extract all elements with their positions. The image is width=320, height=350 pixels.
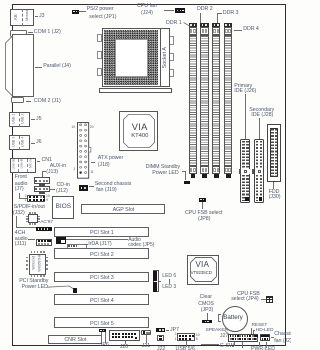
- CPU FSB select JP4: [237, 292, 260, 298]
- VIA VT8235CD chip: [187, 255, 219, 285]
- COM 2 connector J1: [11, 97, 24, 103]
- label J3: [35, 15, 39, 18]
- primary IDE J26: [234, 84, 252, 90]
- audio codec JP5 jumper: [56, 237, 66, 244]
- DDR 2 slot: [200, 23, 209, 27]
- socket pin grid: [104, 30, 158, 86]
- battery: [222, 306, 248, 332]
- clear CMOS JP3: [200, 295, 212, 301]
- secondary IDE J28: [249, 108, 274, 114]
- J20 header: [109, 330, 140, 340]
- BIOS chip: [52, 196, 74, 219]
- CPU fan jumper: [175, 8, 185, 13]
- J27 front panel header: [220, 334, 228, 340]
- DDR labels: [166, 21, 182, 27]
- DDR 1 slot: [189, 23, 198, 27]
- chassis fan J2 connector: [260, 334, 270, 341]
- LED 6 / LED 3: [153, 270, 159, 292]
- parallel port shell: [4, 34, 14, 98]
- COM 1 connector J2: [10, 30, 27, 38]
- CNR Slot: [48, 335, 102, 345]
- DDR 4 slot: [224, 23, 233, 27]
- Front audio J7 label: [15, 175, 27, 181]
- DDR 3 slot: [212, 23, 221, 27]
- parallel port J4: [12, 34, 34, 97]
- PCI Slot 1: [54, 227, 149, 238]
- ATX power connector J18: [71, 120, 96, 182]
- 4CH audio J11 label: [15, 231, 25, 237]
- CD-in label: [57, 183, 70, 189]
- PCI Slot 4: [54, 294, 149, 305]
- line to audio codec label: [66, 238, 128, 241]
- PCI standby power LED label: [19, 279, 48, 285]
- PS/2 power select JP1 jumper: [72, 10, 79, 14]
- USB 5/6 header: [177, 333, 195, 340]
- VIA KT400 chip: [119, 111, 158, 152]
- PCI Slot 5: [54, 317, 149, 328]
- S/PDIF label J32: [14, 205, 45, 211]
- lines below J27: [233, 342, 236, 347]
- front audio header J7: [27, 195, 45, 202]
- JP6: [99, 329, 106, 332]
- AUX-in connector: [34, 177, 50, 184]
- kb/mouse connector J3: [10, 9, 34, 27]
- J21: [141, 330, 151, 334]
- DIMM standby LED: [184, 181, 190, 184]
- S/PDIF header: [36, 227, 52, 232]
- Winbond W83697HF chip: [31, 251, 33, 254]
- socket bottom bar: [99, 88, 173, 93]
- second chassis fan J19: [79, 185, 88, 191]
- CPU FSB select JP8: [199, 198, 206, 202]
- RESET / HD-LED labels: [252, 323, 268, 328]
- IrDA header J17: [67, 244, 88, 249]
- FDD J30: [267, 124, 281, 182]
- SPEAKER label: [206, 328, 228, 333]
- PCI Slot 3: [54, 272, 149, 283]
- DIMM standby power LED label: [146, 165, 180, 171]
- CD-in connector J12: [34, 186, 50, 193]
- PCI Slot 2: [54, 248, 149, 259]
- 4CH audio connector J11: [36, 239, 52, 246]
- PCI standby LED: [73, 288, 77, 293]
- AUX-in J13 label: [50, 164, 66, 170]
- CPU fan J24 label: [137, 4, 157, 10]
- CPU socket A: [97, 34, 102, 42]
- AC97 codec chip: [29, 212, 30, 214]
- USB 1/2 connector J5: [9, 112, 30, 127]
- AGP Slot: [81, 204, 165, 215]
- J22 component: [157, 335, 164, 341]
- CN1 audio jack block: [10, 158, 36, 173]
- JP7: [156, 328, 166, 332]
- USB 3/4 connector J6: [9, 135, 30, 150]
